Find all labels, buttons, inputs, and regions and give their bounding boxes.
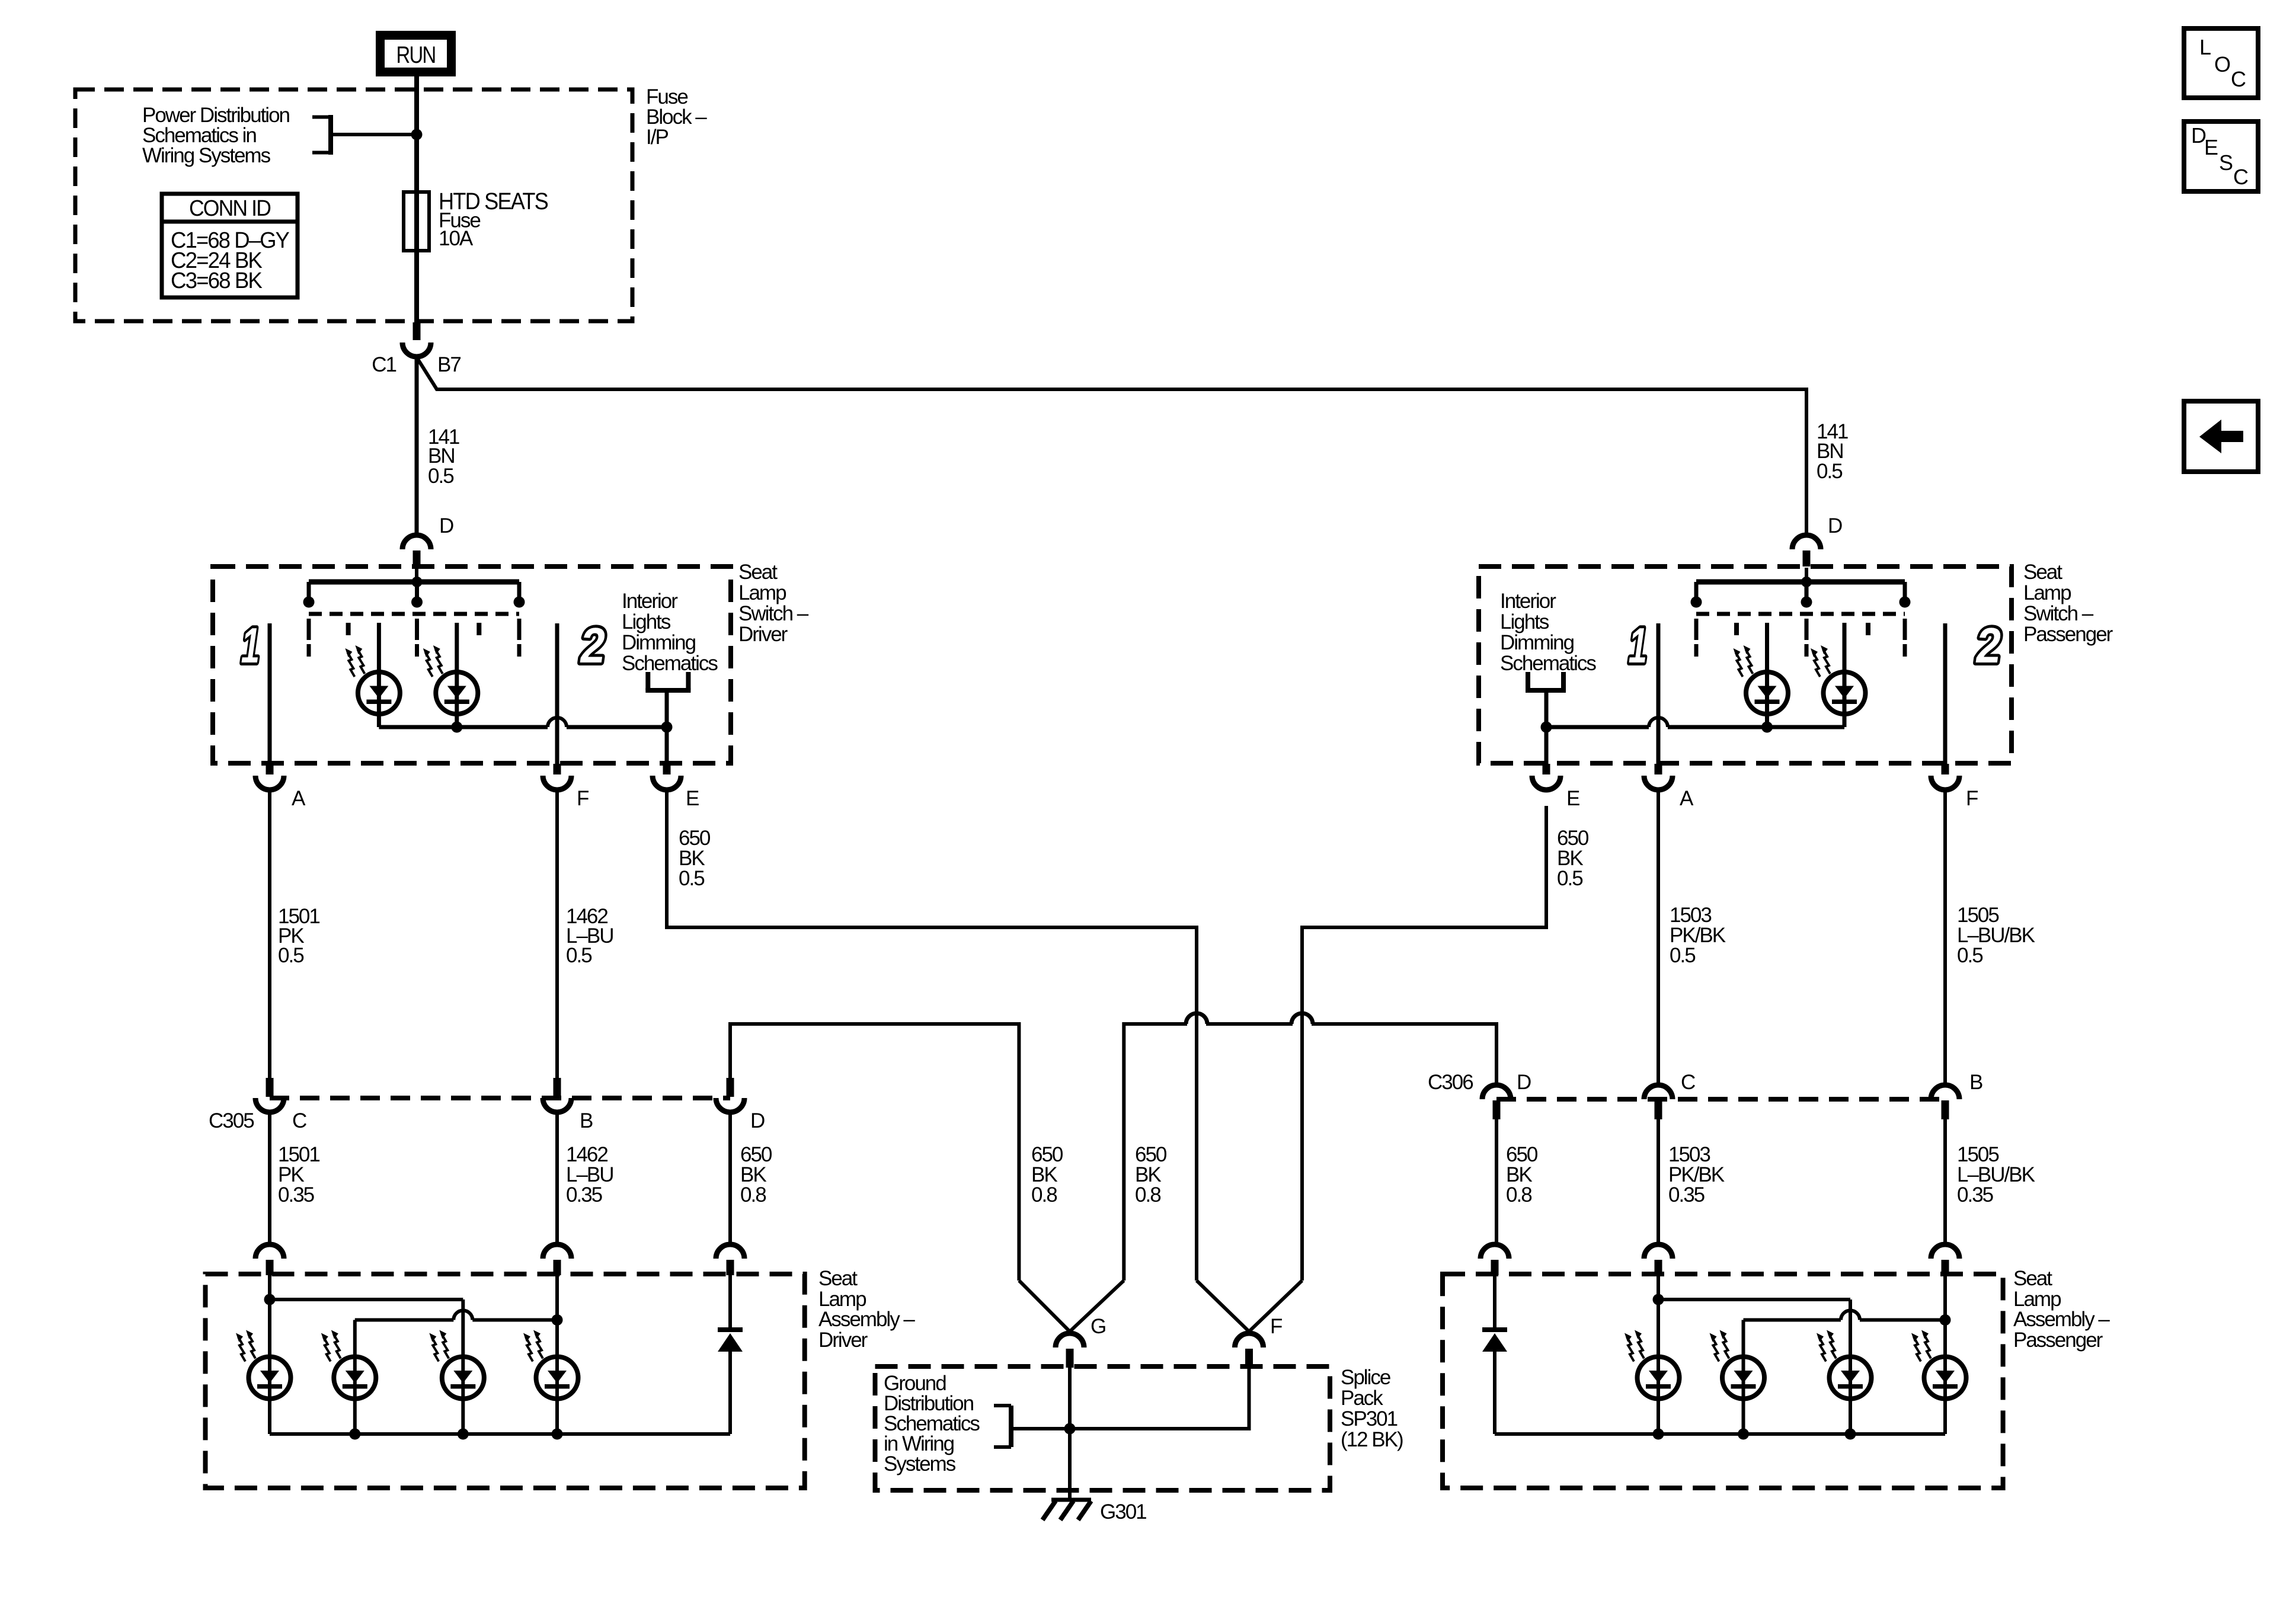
svg-text:A: A bbox=[292, 787, 306, 810]
svg-text:0.5: 0.5 bbox=[428, 465, 453, 488]
svg-text:Schematics: Schematics bbox=[622, 652, 718, 675]
diode CR1 driver assembly (650 BK leg) bbox=[728, 1275, 732, 1330]
lamp LED 2 driver switch bbox=[423, 645, 478, 714]
node branch dot (passenger assembly C) bbox=[1653, 1294, 1664, 1305]
svg-text:SP301: SP301 bbox=[1341, 1407, 1398, 1430]
wire 141 BN trunk down to driver switch D bbox=[415, 356, 419, 534]
svg-text:G301: G301 bbox=[1100, 1500, 1146, 1523]
switch pole dashed continuations (passenger) bbox=[1694, 619, 1699, 640]
lamp LED 1 passenger switch bbox=[1734, 645, 1789, 714]
svg-text:Interior: Interior bbox=[1500, 590, 1556, 613]
svg-text:E: E bbox=[686, 787, 699, 810]
connector driver assembly pin B bbox=[543, 1244, 571, 1259]
svg-text:E: E bbox=[2204, 135, 2218, 159]
switch common rail (driver) bbox=[309, 580, 519, 585]
node dot LED2 cathode bbox=[451, 722, 462, 733]
node branch dot (passenger assembly B) bbox=[1940, 1314, 1951, 1326]
svg-text:B: B bbox=[1969, 1071, 1982, 1094]
svg-text:D: D bbox=[1517, 1071, 1531, 1094]
svg-text:C: C bbox=[292, 1109, 306, 1132]
svg-text:Assembly –: Assembly – bbox=[2013, 1308, 2110, 1331]
switch pole dashed continuations bbox=[307, 619, 311, 640]
node rail junction dot at trunk (passenger) bbox=[1801, 577, 1812, 587]
funnel splice F (two legs converge) bbox=[1197, 1281, 1249, 1331]
connector C305 pin D bbox=[727, 1078, 734, 1097]
wire bracket to E junction (passenger) bbox=[1544, 690, 1549, 764]
switch short contact stubs bbox=[346, 623, 351, 635]
wire 650 BK driver assembly rail (C305-D to splice G leg) bbox=[730, 1024, 1019, 1281]
wire A output inside box (driver) bbox=[268, 623, 272, 764]
lamp LED 4 passenger assembly bbox=[1911, 1330, 1966, 1399]
wire 1505 L-BU/BK C306 to assembly bbox=[1943, 1119, 1947, 1244]
svg-text:Seat: Seat bbox=[2023, 561, 2062, 584]
connector passenger assembly pin D bbox=[1480, 1244, 1509, 1259]
switch movable-arm dashed line (passenger) bbox=[1696, 612, 1905, 616]
connector C306 pin C bbox=[1644, 1085, 1673, 1099]
wire 1501 PK C305 to assembly bbox=[268, 1112, 271, 1244]
node RUN (ignition feed box) bbox=[376, 31, 456, 76]
icon back-arrow box bbox=[2184, 401, 2258, 472]
switch short contact stubs (passenger) bbox=[1734, 623, 1739, 635]
node splice junction dot bbox=[1064, 1423, 1076, 1435]
wire 141 BN branch B7 to passenger (diagonal + horizontal) bbox=[417, 357, 1806, 534]
connector row C305 dashed line bbox=[270, 1096, 730, 1100]
svg-text:G: G bbox=[1091, 1315, 1105, 1338]
svg-text:C: C bbox=[2231, 67, 2246, 91]
svg-text:0.35: 0.35 bbox=[1668, 1183, 1705, 1206]
seat lamp switch passenger dashed box bbox=[1479, 566, 2012, 763]
svg-text:0.8: 0.8 bbox=[740, 1183, 766, 1206]
svg-text:0.5: 0.5 bbox=[278, 944, 303, 967]
connector E passenger switch bbox=[1543, 764, 1550, 774]
node branch dot (driver assembly C) bbox=[264, 1294, 276, 1305]
svg-text:D: D bbox=[439, 514, 453, 537]
svg-text:C1: C1 bbox=[372, 353, 396, 376]
svg-text:Systems: Systems bbox=[884, 1452, 956, 1475]
lamp LED 2 passenger assembly bbox=[1710, 1330, 1765, 1399]
cathode rail driver switch (with hop over F) bbox=[379, 725, 548, 729]
svg-text:0.8: 0.8 bbox=[1506, 1183, 1531, 1206]
lamp LED 2 driver assembly bbox=[321, 1330, 376, 1399]
connector F splice pack bbox=[1235, 1333, 1264, 1347]
svg-text:F: F bbox=[577, 787, 589, 810]
svg-text:A: A bbox=[1680, 787, 1694, 810]
branch wire C to lamp 3 (passenger assembly) bbox=[1658, 1298, 1850, 1301]
lamp LED 1 driver assembly bbox=[236, 1330, 291, 1399]
table CONN ID bbox=[162, 194, 298, 222]
svg-text:C305: C305 bbox=[209, 1109, 254, 1132]
switch contact stubs to dots bbox=[307, 582, 311, 602]
svg-text:Lights: Lights bbox=[1500, 610, 1549, 633]
wire A output inside box (passenger) bbox=[1657, 623, 1661, 764]
svg-text:0.5: 0.5 bbox=[1817, 460, 1842, 483]
bracket ground distribution schematics bbox=[1009, 1406, 1013, 1447]
cathode rail driver assembly bbox=[270, 1432, 730, 1436]
switch contact dots (passenger) bbox=[1691, 597, 1702, 608]
funnel splice G (two legs converge) bbox=[1019, 1281, 1070, 1331]
connector C305 pin C bbox=[266, 1078, 274, 1097]
cathode rail passenger assembly bbox=[1495, 1432, 1945, 1436]
svg-text:Wiring Systems: Wiring Systems bbox=[142, 144, 271, 167]
connector C305 pin B bbox=[554, 1078, 561, 1097]
connector C306 pin B bbox=[1931, 1085, 1959, 1099]
wire lamp feed 1 (driver assembly) bbox=[268, 1275, 271, 1434]
svg-text:0.8: 0.8 bbox=[1135, 1183, 1160, 1206]
svg-text:0.5: 0.5 bbox=[566, 944, 591, 967]
svg-text:Assembly –: Assembly – bbox=[818, 1308, 915, 1331]
connector F driver switch bbox=[554, 764, 561, 774]
svg-text:F: F bbox=[1270, 1315, 1282, 1338]
diode CR1 passenger assembly (650 BK leg) bbox=[1493, 1275, 1496, 1330]
svg-text:0.5: 0.5 bbox=[1957, 944, 1982, 967]
svg-text:S: S bbox=[2219, 151, 2233, 175]
connector driver assembly pin D bbox=[716, 1244, 744, 1259]
svg-text:0.35: 0.35 bbox=[1957, 1183, 1993, 1206]
svg-text:Lamp: Lamp bbox=[738, 581, 786, 604]
fuse block dashed box (Fuse Block - I/P) bbox=[75, 89, 632, 321]
wire lamp feed 1 (passenger assembly) bbox=[1657, 1275, 1660, 1434]
svg-text:0.5: 0.5 bbox=[679, 867, 704, 890]
svg-text:Switch –: Switch – bbox=[738, 602, 809, 625]
connector A driver switch bbox=[266, 764, 274, 774]
switch contact stubs to dots (passenger) bbox=[1694, 582, 1699, 602]
svg-text:Dimming: Dimming bbox=[622, 631, 696, 654]
svg-text:0.8: 0.8 bbox=[1031, 1183, 1057, 1206]
svg-text:Interior: Interior bbox=[622, 590, 678, 613]
lamp LED 3 passenger assembly bbox=[1817, 1330, 1872, 1399]
lamp LED 2 passenger switch bbox=[1811, 645, 1866, 714]
glyph position 1 (passenger) bbox=[1625, 617, 1651, 673]
connector D driver switch (from fuse) bbox=[402, 535, 431, 549]
switch contact dots bbox=[303, 597, 315, 608]
lamp LED 4 driver assembly bbox=[523, 1330, 578, 1399]
glyph position 2 (driver) bbox=[577, 617, 608, 673]
node dot LED1 cathode (passenger) bbox=[1761, 722, 1773, 733]
svg-text:Driver: Driver bbox=[738, 623, 788, 646]
icon DESC box bbox=[2184, 121, 2258, 191]
connector E driver switch bbox=[663, 764, 671, 774]
wire 1503 PK/BK passenger A to C306-C bbox=[1657, 790, 1660, 1085]
wire 1501 PK driver A to C305-C bbox=[268, 790, 271, 1078]
seat lamp assembly driver dashed box bbox=[206, 1274, 805, 1488]
wire fuse to connector C1 bbox=[414, 251, 419, 322]
svg-text:Pack: Pack bbox=[1341, 1387, 1383, 1410]
lamp LED 1 driver switch bbox=[345, 645, 400, 714]
svg-text:Switch –: Switch – bbox=[2023, 602, 2094, 625]
connector passenger assembly pin C bbox=[1644, 1244, 1673, 1259]
wire RUN to fuse (trunk x=703) bbox=[414, 76, 419, 192]
wire lamp 1 feed (driver) bbox=[377, 623, 381, 727]
glyph position 2 (passenger) bbox=[1972, 617, 2004, 673]
svg-text:Seat: Seat bbox=[738, 561, 778, 584]
branch wire C to lamp 3 (driver assembly) bbox=[270, 1298, 463, 1301]
svg-text:0.35: 0.35 bbox=[278, 1183, 314, 1206]
glyph position 1 (driver) bbox=[238, 617, 263, 673]
bracket interior lights dimming (driver) bbox=[645, 672, 650, 690]
wire splice F jumper to G bbox=[1070, 1368, 1249, 1429]
svg-text:0.5: 0.5 bbox=[1670, 944, 1695, 967]
svg-text:E: E bbox=[1566, 787, 1579, 810]
svg-text:Schematics: Schematics bbox=[1500, 652, 1596, 675]
wire lamp feed 4 (passenger assembly) bbox=[1943, 1275, 1947, 1434]
svg-text:B: B bbox=[580, 1109, 593, 1132]
cathode rail passenger switch (with hop over A) bbox=[1546, 725, 1649, 729]
branch wire B to lamp 2 with hop (driver assembly) bbox=[353, 1320, 357, 1435]
svg-text:C: C bbox=[1681, 1071, 1695, 1094]
wire power distribution tap bbox=[331, 133, 417, 136]
wire lamp 2 feed (driver) bbox=[455, 623, 459, 727]
connector row C306 dashed line bbox=[1496, 1097, 1945, 1102]
switch movable-arm dashed line (driver) bbox=[309, 612, 519, 616]
svg-text:C306: C306 bbox=[1428, 1071, 1473, 1094]
svg-text:Lamp: Lamp bbox=[2023, 581, 2071, 604]
lamp LED 1 passenger assembly bbox=[1625, 1330, 1680, 1399]
wire F output inside box (driver) bbox=[555, 623, 559, 764]
seat lamp switch driver dashed box bbox=[213, 566, 731, 763]
wire lamp 2 feed (passenger) bbox=[1843, 623, 1847, 727]
node junction dot power distribution tap bbox=[411, 129, 423, 140]
node branch dot (driver assembly B) bbox=[552, 1314, 563, 1326]
svg-text:I/P: I/P bbox=[646, 126, 668, 149]
svg-text:0.5: 0.5 bbox=[1557, 867, 1582, 890]
wire bracket to E junction (driver) bbox=[665, 690, 669, 764]
seat lamp assembly passenger dashed box bbox=[1443, 1274, 2003, 1488]
wire lamp 1 feed (passenger) bbox=[1765, 623, 1769, 727]
svg-text:Dimming: Dimming bbox=[1500, 631, 1574, 654]
svg-text:Splice: Splice bbox=[1341, 1366, 1390, 1389]
wire F output inside box (passenger) bbox=[1943, 623, 1948, 764]
svg-text:D: D bbox=[1828, 514, 1842, 537]
svg-text:Seat: Seat bbox=[2013, 1267, 2052, 1290]
wire 650 BK C305 to assembly bbox=[728, 1112, 732, 1244]
node rail dots driver assembly bbox=[349, 1429, 360, 1440]
connector C306 pin D bbox=[1482, 1085, 1511, 1099]
wire 1462 L-BU driver F to C305-B bbox=[555, 790, 559, 1078]
branch wire B to lamp 2 with hop (passenger assembly) bbox=[1742, 1320, 1745, 1435]
connector G splice pack bbox=[1056, 1333, 1084, 1347]
node rail junction dot at trunk bbox=[412, 577, 423, 587]
connector passenger assembly pin B bbox=[1931, 1244, 1959, 1259]
svg-text:Seat: Seat bbox=[818, 1267, 858, 1290]
icon LOC box bbox=[2184, 28, 2258, 98]
splice pack SP301 dashed box bbox=[875, 1366, 1331, 1490]
svg-text:C: C bbox=[2233, 165, 2248, 189]
bracket interior lights dimming (passenger) bbox=[1526, 672, 1530, 690]
wire 1462 L-BU C305 to assembly bbox=[555, 1112, 559, 1244]
wire 650 BK C306 to passenger assembly bbox=[1495, 1119, 1498, 1244]
connector driver assembly pin C bbox=[255, 1244, 284, 1259]
connector C1 pin B7 (fuse block output) bbox=[413, 322, 421, 340]
svg-text:F: F bbox=[1966, 787, 1978, 810]
ground G301 symbol bbox=[1051, 1498, 1091, 1502]
wire splice G to ground bbox=[1068, 1368, 1072, 1500]
svg-text:Lights: Lights bbox=[622, 610, 671, 633]
svg-text:O: O bbox=[2214, 52, 2230, 76]
svg-text:D: D bbox=[750, 1109, 765, 1132]
lamp LED 3 driver assembly bbox=[429, 1330, 484, 1399]
bracket power distribution schematics bbox=[328, 115, 333, 155]
fuse F1 HTD SEATS 10A bbox=[404, 192, 429, 251]
connector A passenger switch bbox=[1655, 764, 1662, 774]
svg-text:(12 BK): (12 BK) bbox=[1341, 1428, 1403, 1451]
svg-text:10A: 10A bbox=[439, 227, 474, 250]
svg-text:Driver: Driver bbox=[818, 1329, 868, 1352]
wire 1505 L-BU/BK passenger F to C306-B bbox=[1943, 790, 1947, 1085]
connector D passenger switch bbox=[1792, 535, 1821, 549]
node rail dots passenger assembly bbox=[1653, 1429, 1664, 1440]
node dot E junction (driver) bbox=[661, 722, 673, 733]
wire 1503 PK/BK C306 to assembly bbox=[1657, 1119, 1660, 1244]
svg-text:C3=68 BK: C3=68 BK bbox=[171, 268, 263, 293]
svg-text:B7: B7 bbox=[437, 353, 461, 376]
svg-text:L: L bbox=[2199, 35, 2211, 59]
connector F passenger switch bbox=[1942, 764, 1949, 774]
svg-text:Passenger: Passenger bbox=[2023, 623, 2113, 646]
wire lamp feed 4 (driver assembly) bbox=[555, 1275, 559, 1434]
svg-text:Passenger: Passenger bbox=[2013, 1329, 2103, 1352]
wire 650 BK passenger E to splice (down, left, down to funnel) bbox=[1302, 806, 1546, 1281]
wire 650 BK passenger assembly rail (C306-D to splice F leg, hops over E wires) bbox=[1124, 1024, 1187, 1281]
svg-text:CONN ID: CONN ID bbox=[189, 196, 271, 221]
node dot E junction (passenger) bbox=[1541, 722, 1552, 733]
wire 650 BK driver E to splice (down, right, down to funnel) bbox=[667, 790, 1197, 1281]
svg-text:RUN: RUN bbox=[396, 42, 436, 68]
svg-text:0.35: 0.35 bbox=[566, 1183, 602, 1206]
switch common rail (passenger) bbox=[1696, 580, 1905, 585]
